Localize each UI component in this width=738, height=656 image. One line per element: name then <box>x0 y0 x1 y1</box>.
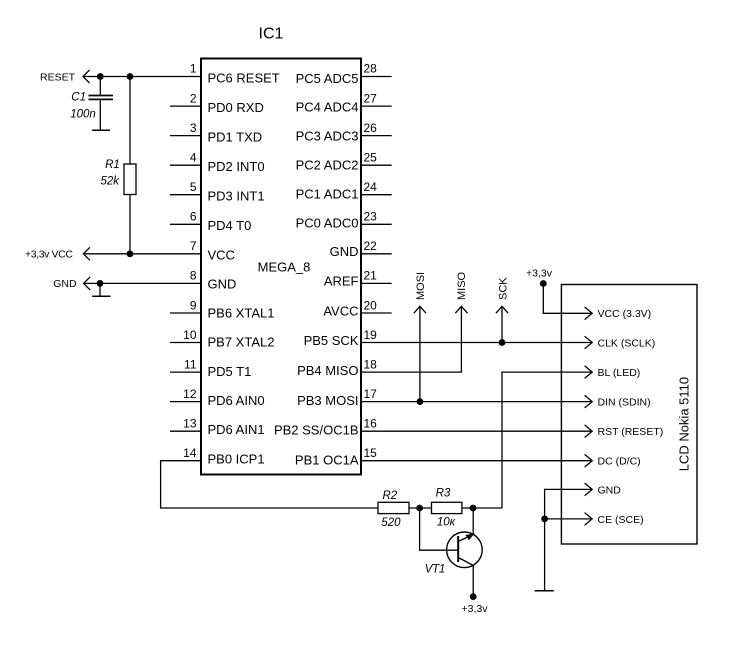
svg-text:LCD Nokia 5110: LCD Nokia 5110 <box>676 377 691 471</box>
svg-text:PB2 SS/OC1B: PB2 SS/OC1B <box>274 423 359 438</box>
svg-text:+3,3v: +3,3v <box>526 268 553 280</box>
svg-text:3: 3 <box>190 121 197 135</box>
svg-text:VCC (3.3V): VCC (3.3V) <box>598 308 652 320</box>
svg-text:IC1: IC1 <box>259 26 284 43</box>
svg-text:+3,3v VCC: +3,3v VCC <box>25 249 73 261</box>
svg-text:RST (RESET): RST (RESET) <box>598 426 664 438</box>
svg-text:PC3 ADC3: PC3 ADC3 <box>296 129 359 144</box>
svg-text:16: 16 <box>364 417 378 431</box>
svg-text:VCC: VCC <box>208 247 235 262</box>
svg-text:MISO: MISO <box>456 271 468 300</box>
svg-text:PB5 SCK: PB5 SCK <box>304 333 359 348</box>
svg-text:14: 14 <box>183 446 197 460</box>
svg-text:22: 22 <box>364 239 378 253</box>
svg-text:R3: R3 <box>436 487 451 499</box>
svg-text:12: 12 <box>183 387 197 401</box>
svg-text:19: 19 <box>364 328 378 342</box>
svg-text:PB7 XTAL2: PB7 XTAL2 <box>208 335 275 350</box>
svg-text:11: 11 <box>184 357 197 371</box>
svg-text:4: 4 <box>190 150 197 164</box>
svg-text:DC (D/C): DC (D/C) <box>598 456 641 468</box>
svg-text:20: 20 <box>364 298 378 312</box>
svg-text:R1: R1 <box>105 159 120 171</box>
svg-text:9: 9 <box>190 298 197 312</box>
svg-text:7: 7 <box>190 239 197 253</box>
svg-text:17: 17 <box>364 387 378 401</box>
svg-text:27: 27 <box>364 91 378 105</box>
svg-text:8: 8 <box>190 269 197 283</box>
svg-text:PB4 MISO: PB4 MISO <box>297 363 358 378</box>
svg-text:PC5 ADC5: PC5 ADC5 <box>296 71 359 86</box>
svg-text:SCK: SCK <box>497 277 509 300</box>
svg-text:6: 6 <box>190 210 197 224</box>
svg-text:+3,3v: +3,3v <box>462 603 489 615</box>
svg-text:C1: C1 <box>71 92 86 104</box>
svg-text:AREF: AREF <box>324 273 359 288</box>
svg-text:PC6 RESET: PC6 RESET <box>208 71 280 86</box>
svg-text:CE (SCE): CE (SCE) <box>598 514 644 526</box>
svg-text:100n: 100n <box>70 109 96 121</box>
svg-text:PD5 T1: PD5 T1 <box>208 364 252 379</box>
svg-text:18: 18 <box>364 357 378 371</box>
svg-text:PB6 XTAL1: PB6 XTAL1 <box>208 306 275 321</box>
svg-text:VT1: VT1 <box>425 564 445 576</box>
svg-text:PC1 ADC1: PC1 ADC1 <box>296 186 359 201</box>
svg-text:PC0 ADC0: PC0 ADC0 <box>296 215 359 230</box>
svg-text:25: 25 <box>364 150 378 164</box>
svg-text:GND: GND <box>53 278 77 290</box>
svg-text:PD4 T0: PD4 T0 <box>208 218 252 233</box>
svg-text:PD6 AIN1: PD6 AIN1 <box>208 422 265 437</box>
svg-text:28: 28 <box>364 62 378 76</box>
svg-text:520: 520 <box>381 517 401 529</box>
svg-text:1: 1 <box>190 62 197 76</box>
svg-text:BL (LED): BL (LED) <box>598 367 641 379</box>
svg-text:AVCC: AVCC <box>323 303 358 318</box>
svg-text:5: 5 <box>190 180 197 194</box>
svg-text:GND: GND <box>208 276 237 291</box>
svg-text:GND: GND <box>330 244 359 259</box>
svg-text:PB1 OC1A: PB1 OC1A <box>295 452 359 467</box>
svg-text:PD0 RXD: PD0 RXD <box>208 100 264 115</box>
svg-text:24: 24 <box>364 180 378 194</box>
svg-text:52k: 52k <box>100 175 120 187</box>
svg-text:PD3 INT1: PD3 INT1 <box>208 188 265 203</box>
svg-text:PD1 TXD: PD1 TXD <box>208 130 263 145</box>
svg-text:21: 21 <box>364 269 378 283</box>
svg-text:MEGA_8: MEGA_8 <box>258 260 311 275</box>
svg-text:15: 15 <box>364 446 378 460</box>
svg-text:13: 13 <box>183 417 197 431</box>
svg-text:10: 10 <box>183 328 197 342</box>
svg-text:10к: 10к <box>437 517 456 529</box>
svg-text:23: 23 <box>364 210 378 224</box>
svg-text:MOSI: MOSI <box>415 272 427 300</box>
svg-text:PB0 ICP1: PB0 ICP1 <box>208 451 265 466</box>
svg-text:DIN (SDIN): DIN (SDIN) <box>598 397 651 409</box>
svg-text:26: 26 <box>364 121 378 135</box>
svg-text:PC2 ADC2: PC2 ADC2 <box>296 158 359 173</box>
svg-text:CLK (SCLK): CLK (SCLK) <box>598 337 656 349</box>
svg-text:GND: GND <box>598 484 622 496</box>
svg-text:PC4 ADC4: PC4 ADC4 <box>296 100 359 115</box>
svg-text:RESET: RESET <box>40 71 76 83</box>
svg-text:PB3 MOSI: PB3 MOSI <box>297 393 358 408</box>
svg-text:PD2 INT0: PD2 INT0 <box>208 159 265 174</box>
svg-text:R2: R2 <box>382 490 397 502</box>
svg-text:PD6 AIN0: PD6 AIN0 <box>208 393 265 408</box>
svg-text:2: 2 <box>190 91 197 105</box>
